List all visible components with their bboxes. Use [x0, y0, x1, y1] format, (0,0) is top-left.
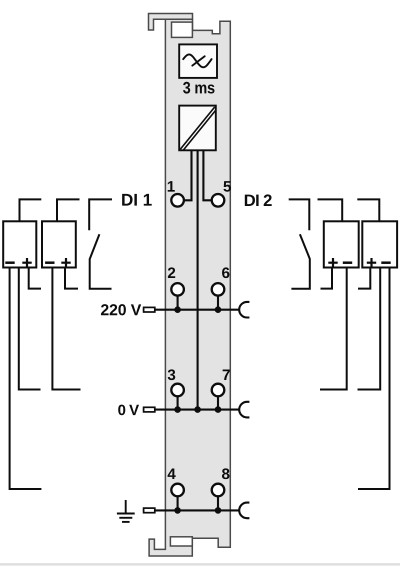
G2 minus [45, 261, 54, 264]
wire G1 minus to gnd stub [10, 268, 42, 490]
wire G1 mid to 0V stub [19, 268, 41, 390]
stem terminal 3 [177, 396, 179, 410]
terminal marker 0V [144, 407, 155, 412]
G1 plus [22, 258, 31, 267]
source box G4 [362, 221, 397, 267]
source box G1 [3, 221, 36, 267]
label DI 2 [245, 195, 255, 206]
terminal circle 1 [171, 194, 184, 207]
source box G3 [324, 221, 359, 267]
wire G2 top to DI1 [57, 199, 80, 221]
connector arc 220V [239, 302, 249, 318]
label DI 1 [122, 194, 132, 206]
G3 plus [328, 258, 337, 267]
junction dot node gnd-8 [215, 507, 222, 514]
stem terminal 2 [177, 296, 179, 310]
isolation box U2 [179, 106, 216, 151]
switch S1 bottom lead [90, 258, 112, 288]
switch S1 blade [90, 234, 100, 258]
pin number 7 [223, 370, 230, 380]
stem terminal 4 [177, 496, 179, 510]
terminal circle 5 [212, 194, 225, 207]
label 3 ms [183, 82, 190, 94]
wire G4 plus to terminal 6 stub [358, 268, 370, 289]
AC filter box U1 [179, 44, 217, 78]
pin number 4 [168, 469, 176, 479]
wire: center bus from U2 down to 0V node [197, 151, 199, 410]
terminal circle 6 [212, 283, 225, 296]
terminal marker gnd [144, 508, 155, 513]
pin number 6 [222, 267, 229, 278]
220V rail wire [143, 309, 240, 311]
terminal circle 4 [171, 484, 184, 497]
terminal circle 2 [171, 283, 184, 296]
G4 plus [367, 258, 376, 267]
terminal circle 3 [171, 384, 184, 397]
G4 minus [381, 261, 390, 264]
pin number 3 [168, 369, 176, 380]
sine wave symbol [183, 55, 211, 68]
source box G2 [42, 221, 76, 267]
wire G2 plus to terminal 2 stub [65, 268, 78, 289]
junction dot node 0V-center [194, 406, 201, 413]
pin number 2 [168, 267, 175, 278]
pin number 8 [222, 468, 230, 479]
connector arc gnd [239, 503, 249, 519]
terminal circle 8 [212, 484, 225, 497]
wire G1 top to DI1 [20, 199, 42, 221]
slash through sine [192, 56, 204, 65]
junction dot node 220V-6 [215, 306, 222, 313]
wire G3 minus to 0V stub [320, 268, 347, 390]
terminal marker 220V [144, 307, 155, 312]
wire: box U2 right lead to terminal 5 [203, 151, 211, 200]
ground symbol [117, 500, 135, 522]
wire G1 plus to terminal 2 stub [29, 268, 41, 289]
stem terminal 7 [217, 396, 219, 410]
junction dot node 0V-7 [215, 406, 222, 413]
switch S2 top lead [289, 199, 310, 230]
pin number 5 [223, 181, 231, 192]
G1 minus [5, 261, 14, 264]
wire G4 minus to gnd stub [358, 268, 390, 490]
junction dot node 220V-2 [174, 306, 181, 313]
page artifact faint rule [0, 563, 400, 565]
wire G4 top to DI2 [357, 199, 379, 221]
switch S2 blade [300, 234, 310, 258]
wire G3 top to DI2 [318, 199, 343, 221]
stem terminal 8 [217, 496, 219, 510]
switch S2 bottom lead [291, 258, 309, 288]
switch S1 top lead [89, 199, 112, 230]
label 220 V [101, 304, 109, 315]
isolation diagonal (double line) [180, 107, 214, 149]
connector arc 0V [239, 402, 249, 418]
wire: box U2 left lead to terminal 1 [184, 151, 191, 200]
bottom rail notch [170, 537, 192, 546]
module body outline (K-bus I/O module profile) [149, 14, 231, 557]
junction dot node gnd-4 [174, 507, 181, 514]
G2 plus [61, 258, 70, 267]
pin number 1 [168, 181, 175, 191]
ground rail wire [143, 509, 240, 511]
0V rail wire [143, 409, 240, 411]
wire G3 plus to terminal 6 stub [321, 268, 333, 289]
label 0 V [118, 405, 125, 416]
top bar parting line [165, 18, 193, 20]
G3 minus [343, 261, 352, 264]
stem terminal 6 [217, 296, 219, 310]
junction dot node 0V-3 [174, 406, 181, 413]
top rail notch [172, 22, 193, 37]
terminal circle 7 [212, 384, 225, 397]
wire G2 minus to 0V stub [52, 268, 80, 390]
wire G4 mid to 0V stub [358, 268, 381, 390]
